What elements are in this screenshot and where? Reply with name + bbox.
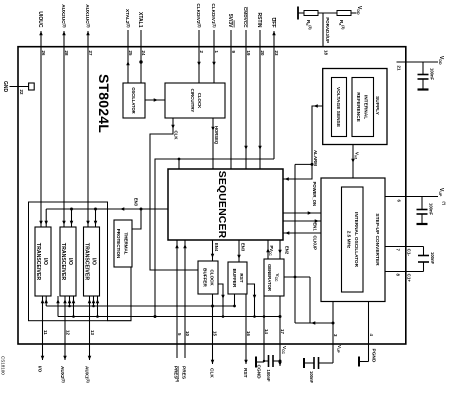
pin GND pad	[29, 83, 35, 90]
svg-text:CMDVCC: CMDVCC	[243, 7, 248, 28]
svg-text:EN4: EN4	[214, 243, 219, 252]
svg-text:SUPPLY: SUPPLY	[374, 96, 380, 116]
bus B junction on CGND wire	[263, 315, 266, 318]
svg-text:GENERATOR: GENERATOR	[267, 264, 272, 292]
wire thermal to EN3 bus	[132, 209, 141, 229]
svg-text:XTAL1: XTAL1	[137, 12, 143, 28]
pin AUX2 out-arrow	[63, 356, 67, 360]
pin OFF out-arrow	[272, 31, 276, 35]
chip outer border	[18, 47, 406, 344]
pin AUX2 wire	[64, 296, 66, 360]
wire ALARM branch down	[295, 163, 312, 165]
capacitor plate1 (VUP3 100nF)	[318, 357, 320, 369]
pin PGND wire	[368, 302, 370, 362]
capacitor plate2 (VDD 100nF)	[418, 78, 429, 80]
PGND ground stem	[359, 361, 369, 363]
ALARM mid arrow	[314, 104, 318, 108]
svg-text:C1-: C1-	[407, 249, 412, 257]
wire ALARM supply to sequencer	[283, 106, 323, 179]
svg-text:UIOUC: UIOUC	[37, 11, 43, 28]
svg-text:13: 13	[90, 330, 95, 335]
EN3 junction row2	[70, 208, 73, 211]
EN3 stub to transceiver row1	[45, 209, 47, 227]
EN3 junction row3	[94, 208, 97, 211]
clock circuitry block	[165, 83, 225, 118]
ALARM arrow into sequencer	[285, 177, 289, 181]
pin VDD(21) wire	[397, 61, 439, 63]
CGND junction dot	[263, 360, 265, 362]
svg-text:27: 27	[88, 51, 93, 56]
bus A stub arrow row2	[68, 299, 72, 303]
Vcc generator block	[264, 259, 284, 296]
svg-text:I/O: I/O	[42, 258, 48, 265]
thermal junction dot	[140, 208, 143, 211]
pin AUX1UC in-arrow	[86, 221, 90, 225]
pin AUX1 wire	[89, 296, 91, 360]
pin I/O wire	[42, 296, 44, 360]
sequencer block	[168, 169, 283, 240]
svg-text:22: 22	[19, 90, 24, 95]
svg-text:100nF: 100nF	[266, 370, 271, 383]
VUP(3) cap stem	[319, 362, 334, 364]
step-up converter block	[321, 178, 385, 302]
svg-text:GND: GND	[2, 81, 8, 93]
svg-text:OFF: OFF	[270, 18, 276, 28]
EN3 stub arrow row1	[44, 221, 48, 225]
pin CGND wire	[263, 296, 265, 362]
svg-text:BUFFER: BUFFER	[203, 268, 208, 287]
HORSEQ arrow	[211, 127, 215, 131]
VUP cap branch	[421, 197, 423, 210]
svg-text:CIRCUITRY: CIRCUITRY	[190, 89, 195, 113]
pin UIOUC in-arrow	[39, 221, 43, 225]
svg-text:BUFFER: BUFFER	[232, 269, 237, 288]
bus B stub to clock buffer	[218, 284, 223, 317]
svg-text:SEQUENCER: SEQUENCER	[216, 171, 227, 239]
capacitor plate1 (VUP 100nF)	[417, 209, 428, 211]
svg-text:100nF: 100nF	[430, 252, 435, 265]
pin VUP(6) wire	[385, 196, 438, 198]
wire oscillator to clock circuitry	[145, 99, 165, 101]
pin VCC wire	[279, 296, 281, 366]
svg-text:PROTECTION: PROTECTION	[116, 229, 121, 259]
bus B junction at clock buffer stub	[222, 315, 225, 318]
svg-text:12: 12	[66, 330, 71, 335]
wire VUP branch to VCC generator	[309, 277, 311, 323]
svg-text:20: 20	[260, 51, 265, 56]
pin AUX2UC in-arrow	[62, 221, 66, 225]
capacitor plate2 (VCC 100nF)	[268, 355, 270, 367]
bus A stub from RST buffer	[234, 294, 236, 306]
svg-text:RST: RST	[239, 273, 244, 282]
svg-text:TRANSCEIVER: TRANSCEIVER	[84, 243, 90, 280]
bus B stub row2	[73, 296, 75, 317]
bus A junction at RST buffer stub	[233, 305, 236, 308]
VUP(3) junction dot	[332, 322, 335, 325]
pin C1+ riser	[385, 271, 424, 273]
pin XTAL2 wire	[127, 30, 129, 83]
supply block	[323, 69, 387, 145]
bus A stub row3	[93, 296, 95, 306]
wire EN1 sequencer to step-up	[283, 220, 321, 222]
wire VUP(3) branch vertical	[295, 322, 333, 324]
pin AUX1UC wire to transceiver	[87, 31, 89, 227]
CLKUP arrow into sequencer	[285, 231, 289, 235]
pin AUX1UC out-arrow	[86, 31, 90, 35]
bus A vertical	[46, 305, 234, 307]
svg-text:ALARM: ALARM	[313, 150, 318, 166]
svg-text:EN2: EN2	[285, 246, 290, 255]
I/O transceiver block row3 (AUX1)	[84, 227, 100, 296]
svg-text:10: 10	[185, 331, 190, 336]
wire EN4 sequencer to clock buffer	[212, 240, 214, 261]
bus A junction row2	[68, 305, 71, 308]
bracket around transceivers	[29, 202, 108, 321]
wire VDD to Ra	[351, 12, 357, 14]
stub OFF snake to sequencer	[178, 159, 180, 169]
VUP(3) branch arrow	[311, 321, 315, 325]
svg-text:CLOCK: CLOCK	[210, 269, 215, 286]
VUP(3) cap lower stem	[304, 362, 314, 364]
svg-text:PGND: PGND	[371, 349, 377, 363]
wire HORSEQ clock circuitry to sequencer	[212, 118, 214, 169]
pin C1- riser	[385, 246, 424, 248]
wire VDD cap to ground	[422, 79, 424, 90]
svg-text:18: 18	[324, 50, 329, 55]
VDD cap branch	[422, 62, 424, 75]
bus B junction row3	[96, 315, 99, 318]
svg-text:CLK: CLK	[209, 368, 215, 378]
svg-text:ST8024L: ST8024L	[96, 74, 112, 133]
OFF snake junction on bus B	[154, 315, 157, 318]
svg-text:THERMAL: THERMAL	[123, 233, 128, 255]
bus B stub arrow (clock buffer)	[221, 295, 225, 299]
svg-text:EN3: EN3	[134, 198, 139, 207]
bus A stub arrow row3	[92, 299, 96, 303]
pin AUX2UC wire to transceiver	[63, 31, 65, 227]
bus B stub to RST buffer	[247, 284, 255, 317]
wire POWER_ON sequencer to step-up	[283, 212, 321, 214]
svg-text:EN1: EN1	[313, 223, 318, 232]
pin CLKDIV2 wire	[198, 30, 200, 83]
internal oscillator sub-block	[342, 187, 364, 292]
bus A junction row3	[92, 305, 95, 308]
svg-text:100nF: 100nF	[429, 203, 434, 216]
svg-text:15: 15	[213, 331, 218, 336]
PVCC arrow	[266, 248, 270, 252]
wire EN3 bus from sequencer	[46, 208, 168, 210]
CGND ground stem	[256, 361, 264, 363]
svg-text:2.5 MHz: 2.5 MHz	[346, 231, 351, 249]
pin PRESbar wire to sequencer	[176, 240, 178, 358]
RST buffer block	[228, 262, 247, 294]
capacitor plate2 (VUP 100nF)	[417, 213, 428, 215]
svg-text:16: 16	[246, 331, 251, 336]
ground bar (PGND)	[358, 357, 360, 367]
bus B stub arrow row2	[72, 299, 76, 303]
pin CLKDIV1 wire	[213, 30, 215, 83]
pin AUX1 in-arrow	[88, 299, 92, 303]
pin PRESbar arrow	[175, 244, 179, 248]
junction dot on XTAL1	[139, 60, 142, 63]
svg-text:C1+: C1+	[407, 274, 412, 283]
pin AUX2UC out-arrow	[62, 31, 66, 35]
bus B stub arrow row3	[96, 299, 100, 303]
wire Ra to node	[318, 12, 337, 14]
bracket extension to thermal	[108, 267, 132, 321]
EN3 stub to transceiver row2	[71, 209, 73, 227]
svg-text:CLOCK: CLOCK	[197, 93, 202, 109]
svg-text:POWER_ON: POWER_ON	[312, 182, 317, 206]
pin VCC arrow out	[278, 362, 282, 366]
EN4 arrow	[211, 254, 215, 258]
resistor Rb	[304, 11, 318, 16]
pin PRES wire to sequencer	[184, 240, 186, 358]
svg-text:RST: RST	[242, 368, 248, 378]
pin XTAL2 out-arrow	[126, 61, 130, 65]
svg-text:EN3: EN3	[241, 243, 246, 252]
wire VUP cap to ground	[421, 214, 423, 224]
svg-text:23: 23	[274, 51, 279, 56]
svg-text:5V/3V: 5V/3V	[227, 14, 233, 28]
bus B junction on VCC wire	[279, 315, 282, 318]
junction OFF snake stub	[178, 158, 181, 161]
wire into VCC generator top	[284, 276, 310, 278]
ground bar of divider	[297, 7, 299, 20]
EN3 arrow	[237, 255, 241, 259]
voltage sense sub-block	[332, 78, 347, 137]
svg-text:STEP-UP CONVERTER: STEP-UP CONVERTER	[374, 213, 380, 266]
svg-text:I/O: I/O	[38, 366, 43, 373]
pin CLKDIV1 arrow	[212, 62, 216, 66]
pin OFF wire	[273, 31, 275, 159]
VCC cap stem	[273, 360, 280, 362]
svg-text:CS18100: CS18100	[0, 356, 5, 375]
capacitor plate1 (VDD 100nF)	[418, 74, 429, 76]
pin AUX1 out-arrow	[88, 356, 92, 360]
svg-text:28: 28	[64, 51, 69, 56]
svg-text:PORADJ/UP: PORADJ/UP	[325, 17, 330, 43]
svg-text:24: 24	[141, 51, 146, 56]
bus A stub row2	[69, 296, 71, 306]
pin 5V/3V wire to sequencer	[230, 30, 232, 169]
wire CLKUP step-up to sequencer	[283, 232, 321, 234]
EN3 stub arrow row3	[94, 221, 98, 225]
pin I/O out-arrow	[41, 356, 45, 360]
bus B stub arrow row1	[56, 299, 60, 303]
svg-text:PRES: PRES	[174, 366, 179, 379]
wire PVCC Vcc generator to sequencer	[267, 240, 269, 259]
svg-text:HORSEQ: HORSEQ	[214, 126, 219, 145]
wire EN2 sequencer to Vcc generator	[279, 240, 281, 259]
wire pump cap to C1+	[423, 262, 425, 272]
POWER_ON arrow	[308, 211, 312, 215]
svg-text:TRANSCEIVER: TRANSCEIVER	[60, 243, 66, 280]
pin I/O in-arrow	[41, 299, 45, 303]
bus A stub arrow row1	[44, 299, 48, 303]
svg-text:26: 26	[41, 51, 46, 56]
svg-text:VOLTAGE SENSE: VOLTAGE SENSE	[335, 87, 341, 128]
pin PRES arrow	[183, 244, 187, 248]
svg-text:CLKUP: CLKUP	[313, 236, 318, 251]
bus B stub arrow (RST buffer)	[253, 295, 257, 299]
svg-text:OSCILLATOR: OSCILLATOR	[131, 87, 136, 113]
pin CMDVCC arrow	[244, 146, 248, 150]
pump capacitor plate2	[418, 261, 429, 263]
VCC cap to CGND wire	[264, 360, 269, 362]
EN3 bus mid arrow	[120, 207, 124, 211]
wire CLK internal	[150, 118, 198, 270]
svg-text:100nF: 100nF	[309, 371, 314, 384]
wire Vref supply to step-up	[352, 145, 354, 179]
junction on VCC generator feed	[294, 276, 297, 279]
Vref mid arrow	[351, 159, 355, 163]
capacitor plate2 (VUP3 100nF)	[313, 357, 315, 369]
EN1 arrow	[315, 219, 319, 223]
thermal protection block	[114, 220, 132, 267]
svg-text:17: 17	[280, 329, 285, 334]
bus B stub row1	[57, 296, 59, 317]
I/O transceiver block row2 (AUX2)	[60, 227, 76, 296]
pump capacitor plate1	[418, 255, 429, 257]
pin RST arrow out	[244, 360, 248, 364]
CLK internal arrow	[171, 125, 175, 129]
svg-text:25: 25	[128, 51, 133, 56]
internal reference sub-block	[352, 78, 374, 137]
svg-text:I/O: I/O	[91, 258, 97, 265]
ALARM branch junction	[311, 163, 314, 166]
EN3 stub to transceiver row3	[95, 209, 97, 227]
svg-text:19: 19	[246, 51, 251, 56]
svg-text:(4): (4)	[176, 378, 180, 382]
pin XTAL1 wire	[140, 30, 142, 83]
svg-text:TRANSCEIVER: TRANSCEIVER	[35, 243, 41, 280]
svg-text:INTERNAL: INTERNAL	[363, 95, 369, 119]
pin RSTIN wire to sequencer	[259, 30, 261, 169]
svg-text:PRES: PRES	[181, 366, 187, 380]
svg-text:CLK: CLK	[174, 131, 179, 141]
svg-text:(*): (*)	[442, 202, 446, 205]
pin CLKDIV2 arrow	[197, 62, 201, 66]
svg-text:11: 11	[43, 330, 48, 335]
wire ALARM branch horizontal	[294, 164, 296, 323]
wire node to pin 18	[322, 13, 324, 47]
bus B junction at RST buffer stub	[253, 315, 256, 318]
bus B vertical	[58, 316, 280, 318]
oscillator block	[123, 83, 145, 118]
pin UIOUC wire to transceiver	[40, 31, 42, 227]
svg-text:100nF: 100nF	[430, 68, 435, 81]
VCC cap junction	[279, 360, 282, 363]
pin VUP(3) wire	[332, 302, 334, 364]
wire C1- to pump cap	[423, 247, 425, 256]
svg-text:21: 21	[397, 66, 402, 71]
wire EN3 sequencer to RST buffer	[238, 240, 240, 262]
capacitor plate1 (VCC 100nF)	[272, 355, 274, 367]
I/O transceiver block row1 (I/O)	[35, 227, 51, 296]
EN3 stub arrow row2	[70, 221, 74, 225]
clock buffer block	[198, 261, 218, 294]
bus A stub row1	[45, 296, 47, 306]
svg-text:14: 14	[264, 329, 269, 334]
svg-text:INTERNAL OSCILLATOR: INTERNAL OSCILLATOR	[354, 212, 359, 268]
svg-text:REFERENCE: REFERENCE	[355, 92, 361, 122]
bus B stub row3	[97, 296, 99, 317]
ground bar (CGND)	[255, 357, 257, 368]
pin AUX2 in-arrow	[63, 299, 67, 303]
EN2 arrow	[278, 250, 282, 254]
svg-text:I/O: I/O	[67, 258, 73, 265]
wire Rb to ground	[298, 12, 304, 14]
bus B junction row2	[72, 315, 75, 318]
svg-text:CGND: CGND	[256, 365, 262, 380]
svg-text:RSTIN: RSTIN	[256, 13, 262, 28]
pin CMDVCC wire to sequencer	[245, 30, 247, 169]
wire OFF snake from pin to bus B	[155, 159, 274, 317]
pin RSTIN arrow	[258, 146, 262, 150]
ground bar (VUP3 cap)	[303, 358, 305, 368]
ground bar (VDD cap)	[418, 88, 429, 90]
resistor Ra	[337, 11, 351, 16]
oscillator output arrow	[154, 98, 158, 102]
ground bar (VUP cap)	[417, 223, 428, 225]
pin RST wire	[245, 294, 247, 364]
pin CLK arrow out	[211, 360, 215, 364]
pin GND wire	[10, 86, 29, 88]
bus A junction on CLK wire	[211, 305, 214, 308]
pin CLK wire	[212, 294, 214, 364]
pin UIOUC out-arrow	[39, 31, 43, 35]
